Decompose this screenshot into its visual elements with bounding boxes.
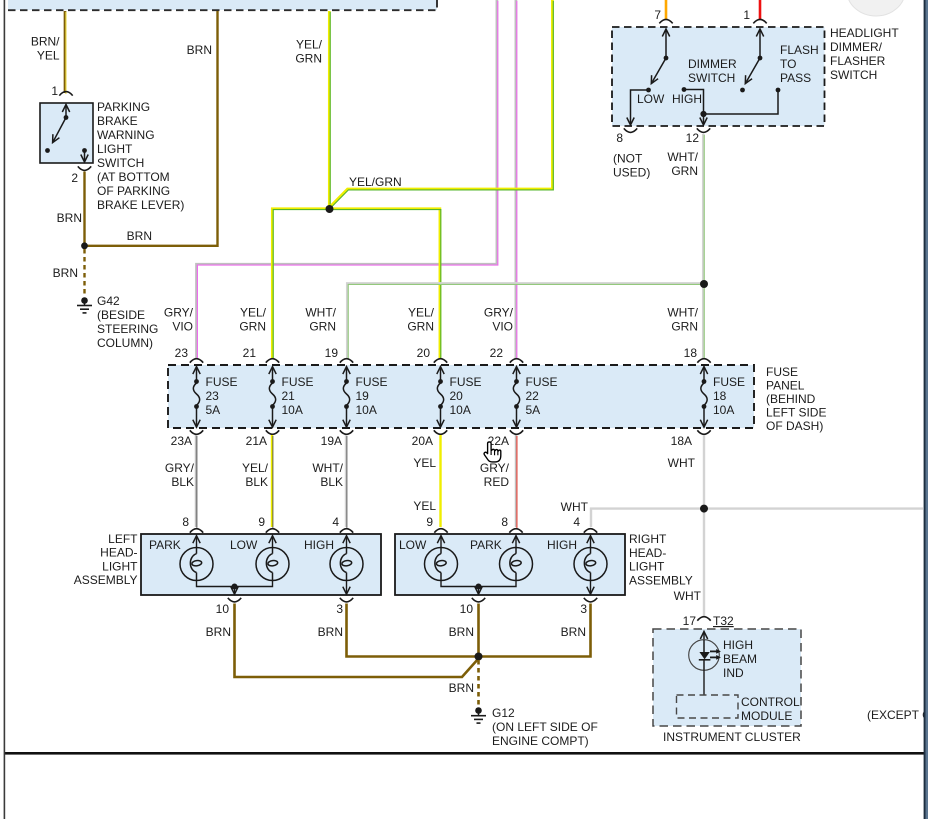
- svg-text:STEERING: STEERING: [97, 322, 158, 336]
- svg-text:(AT BOTTOM: (AT BOTTOM: [97, 170, 170, 184]
- svg-text:WHT/: WHT/: [667, 150, 698, 164]
- svg-text:BRN: BRN: [53, 266, 78, 280]
- svg-text:(BEHIND: (BEHIND: [766, 392, 816, 406]
- svg-text:1: 1: [51, 84, 58, 98]
- junction dot BRN ground net: [475, 653, 483, 661]
- svg-text:FLASH: FLASH: [780, 43, 819, 57]
- fuse F19 10A: [340, 359, 388, 435]
- svg-text:GRN: GRN: [671, 164, 698, 178]
- svg-text:YEL: YEL: [413, 499, 436, 513]
- wire GRY/RED fuse 22A to right headlight pin 8: [515, 435, 517, 527]
- fuse F20 10A: [434, 359, 482, 435]
- svg-text:BLK: BLK: [320, 475, 343, 489]
- parking brake warning light switch S1: [40, 84, 93, 185]
- junction dot A YEL/GRN: [326, 205, 334, 213]
- svg-text:HIGH: HIGH: [723, 638, 753, 652]
- pin 10 connector: [472, 598, 485, 602]
- svg-text:8: 8: [616, 131, 623, 145]
- svg-text:20: 20: [450, 389, 464, 403]
- svg-text:HEAD-: HEAD-: [629, 546, 666, 560]
- svg-text:FLASHER: FLASHER: [830, 54, 886, 68]
- svg-text:23: 23: [206, 389, 220, 403]
- wire WHT/GRN junction B left to fuse 19: [347, 284, 704, 359]
- headlight dimmer/flasher switch S2: [612, 19, 825, 126]
- junction dot WHT: [700, 505, 708, 513]
- svg-text:12: 12: [686, 131, 700, 145]
- svg-text:(NOT: (NOT: [613, 152, 643, 166]
- mouse cursor hand pointer: [484, 442, 501, 462]
- diagram bottom separator line: [4, 752, 924, 755]
- wire LED to control module: [703, 670, 705, 695]
- instrument cluster box: [653, 629, 801, 726]
- wire GRY/BLK fuse 23A to left headlight pin 8: [195, 435, 197, 527]
- svg-text:INSTRUMENT CLUSTER: INSTRUMENT CLUSTER: [663, 730, 801, 744]
- park bulb left: [196, 536, 198, 548]
- svg-text:GRN: GRN: [309, 320, 336, 334]
- svg-text:GRY/: GRY/: [480, 461, 510, 475]
- pin 2 connector: [78, 166, 91, 170]
- wire YEL fuse 20A to right headlight pin 9: [439, 435, 441, 527]
- svg-text:BRN: BRN: [318, 625, 343, 639]
- svg-text:T32: T32: [713, 614, 734, 628]
- svg-text:(ON LEFT SIDE OF: (ON LEFT SIDE OF: [492, 720, 598, 734]
- svg-text:BRN: BRN: [561, 625, 586, 639]
- viewport left border: [4, 0, 6, 819]
- high to pin 3: [590, 581, 592, 594]
- svg-text:19: 19: [356, 389, 370, 403]
- pin 10 connector: [228, 598, 241, 602]
- wire BRN dashed to ground G42: [83, 249, 85, 296]
- svg-text:10A: 10A: [356, 403, 377, 417]
- svg-text:LOW: LOW: [637, 92, 665, 106]
- svg-text:WHT: WHT: [561, 500, 589, 514]
- svg-text:YEL/: YEL/: [296, 38, 323, 52]
- wire WHT/GRN dimmer pin 12 down to junction B: [702, 134, 705, 284]
- svg-text:YEL: YEL: [413, 456, 436, 470]
- fuse F23 5A: [190, 359, 238, 435]
- svg-text:19A: 19A: [321, 434, 342, 448]
- wire BRN from top box down and left to junction: [86, 11, 218, 246]
- low+park common to pin 10: [441, 581, 516, 587]
- fuse F18 10A: [697, 359, 745, 435]
- svg-text:LOW: LOW: [399, 538, 427, 552]
- svg-text:G42: G42: [97, 294, 120, 308]
- wire YEL/GRN branch to fuse 20: [329, 209, 440, 358]
- svg-text:22: 22: [526, 389, 540, 403]
- svg-text:YEL/: YEL/: [408, 306, 435, 320]
- svg-text:22: 22: [490, 346, 504, 360]
- svg-text:G12: G12: [492, 706, 515, 720]
- wire YEL/BLK fuse 21A to left headlight pin 9: [271, 435, 273, 527]
- svg-text:YEL/: YEL/: [242, 461, 269, 475]
- svg-text:FUSE: FUSE: [206, 375, 238, 389]
- svg-text:BLK: BLK: [171, 475, 194, 489]
- svg-text:CONTROL: CONTROL: [741, 695, 800, 709]
- svg-text:BRN: BRN: [449, 681, 474, 695]
- ground G42: [77, 297, 92, 313]
- svg-text:GRN: GRN: [407, 320, 434, 334]
- dimmer switch contact art: [665, 29, 667, 58]
- pin 8 connector: [509, 529, 522, 533]
- svg-text:BRN: BRN: [57, 211, 82, 225]
- svg-text:GRN: GRN: [671, 320, 698, 334]
- svg-text:5A: 5A: [526, 403, 541, 417]
- switch contact art: [65, 105, 67, 118]
- pin 12 connector: [697, 128, 710, 132]
- svg-text:10A: 10A: [450, 403, 471, 417]
- wire BRN dashed to ground G12: [477, 660, 480, 706]
- fuse F22 5A: [510, 359, 558, 435]
- svg-text:(BESIDE: (BESIDE: [97, 308, 145, 322]
- svg-text:GRY/: GRY/: [164, 306, 194, 320]
- wire YEL/GRN from top box to junction A: [328, 11, 331, 207]
- svg-text:ENGINE COMPT): ENGINE COMPT): [492, 734, 589, 748]
- svg-text:SWITCH: SWITCH: [688, 71, 735, 85]
- svg-text:2: 2: [71, 171, 78, 185]
- svg-text:1: 1: [743, 8, 750, 22]
- pin 8 connector: [190, 529, 203, 533]
- svg-text:BLK: BLK: [245, 475, 268, 489]
- svg-text:YEL/GRN: YEL/GRN: [349, 175, 402, 189]
- svg-text:10A: 10A: [713, 403, 734, 417]
- svg-text:COLUMN): COLUMN): [97, 336, 153, 350]
- wire BRN/YEL from top box to parking brake switch pin 1: [64, 11, 67, 93]
- svg-text:WHT/: WHT/: [312, 461, 343, 475]
- control module box: [677, 695, 739, 718]
- high to pin 3: [346, 581, 348, 594]
- wire WHT branch to right headlight pin 4: [591, 509, 704, 527]
- svg-text:DIMMER: DIMMER: [688, 57, 737, 71]
- svg-text:WHT: WHT: [674, 589, 702, 603]
- svg-text:LEFT SIDE: LEFT SIDE: [766, 406, 826, 420]
- svg-text:(EXCEPT CO: (EXCEPT CO: [867, 708, 928, 722]
- svg-text:10: 10: [216, 602, 230, 616]
- svg-text:23: 23: [175, 346, 189, 360]
- pin 4 connector: [584, 529, 597, 533]
- svg-text:SWITCH: SWITCH: [97, 156, 144, 170]
- low bulb left: [272, 536, 274, 548]
- svg-text:PARK: PARK: [149, 538, 181, 552]
- svg-text:10: 10: [460, 602, 474, 616]
- svg-text:FUSE: FUSE: [526, 375, 558, 389]
- svg-text:BEAM: BEAM: [723, 652, 757, 666]
- pin 17 connector: [697, 617, 710, 621]
- wire WHT/BLK fuse 19A to left headlight pin 4: [345, 435, 347, 527]
- svg-text:8: 8: [182, 515, 189, 529]
- svg-text:BRN: BRN: [187, 43, 212, 57]
- svg-text:3: 3: [580, 602, 587, 616]
- svg-text:RIGHT: RIGHT: [629, 532, 667, 546]
- svg-text:OF DASH): OF DASH): [766, 419, 823, 433]
- wire WHT/GRN junction B to fuse 18: [702, 284, 705, 358]
- wire GRY/VIO from top to fuse 22: [515, 0, 518, 358]
- svg-text:ASSEMBLY: ASSEMBLY: [74, 573, 138, 587]
- svg-text:IND: IND: [723, 666, 744, 680]
- svg-text:PASS: PASS: [780, 71, 811, 85]
- svg-text:YEL: YEL: [37, 49, 60, 63]
- wire WHT fuse 18A down to instrument cluster pin 17: [703, 435, 705, 616]
- svg-text:OF PARKING: OF PARKING: [97, 184, 170, 198]
- svg-text:18: 18: [713, 389, 727, 403]
- svg-text:LIGHT: LIGHT: [629, 560, 665, 574]
- park+low common to pin 10: [197, 581, 273, 587]
- svg-text:GRY/: GRY/: [484, 306, 514, 320]
- pin 3 connector: [340, 598, 353, 602]
- svg-text:21: 21: [243, 346, 257, 360]
- high beam indicator LED: [689, 632, 721, 671]
- svg-text:8: 8: [501, 515, 508, 529]
- park bulb right: [515, 536, 517, 548]
- pin 3 connector: [584, 598, 597, 602]
- pin 1 connector: [753, 19, 766, 23]
- svg-text:VIO: VIO: [172, 320, 193, 334]
- svg-text:BRAKE LEVER): BRAKE LEVER): [97, 198, 184, 212]
- junction dot pin 12 net: [700, 111, 706, 117]
- svg-text:HIGH: HIGH: [547, 538, 577, 552]
- wire WHT continuing to right edge: [704, 507, 923, 509]
- svg-text:WHT: WHT: [668, 456, 696, 470]
- low bulb right: [440, 536, 442, 548]
- svg-text:PARKING: PARKING: [97, 100, 150, 114]
- svg-text:PARK: PARK: [470, 538, 502, 552]
- pin 7 connector: [659, 19, 672, 23]
- svg-text:LEFT: LEFT: [108, 532, 138, 546]
- wire BRN left pin 10 to ground junction: [235, 604, 479, 678]
- svg-text:4: 4: [332, 515, 339, 529]
- svg-text:3: 3: [336, 602, 343, 616]
- svg-text:HEAD-: HEAD-: [100, 546, 137, 560]
- svg-text:DIMMER/: DIMMER/: [830, 40, 883, 54]
- fuse F21 10A: [266, 359, 314, 435]
- svg-text:GRN: GRN: [295, 52, 322, 66]
- svg-text:BRN: BRN: [127, 229, 152, 243]
- svg-text:ASSEMBLY: ASSEMBLY: [629, 573, 693, 587]
- pin 8 connector (not used): [624, 128, 637, 132]
- svg-text:21: 21: [282, 389, 296, 403]
- pin 9 connector: [266, 529, 279, 533]
- svg-text:9: 9: [258, 515, 265, 529]
- svg-text:7: 7: [654, 8, 661, 22]
- junction dot BRN: [81, 242, 88, 249]
- viewport right panel edge: [924, 0, 926, 819]
- right headlight assembly box: [395, 534, 625, 595]
- wire YEL/GRN branch to fuse 21: [272, 209, 330, 358]
- svg-text:19: 19: [325, 346, 339, 360]
- svg-text:WARNING: WARNING: [97, 128, 155, 142]
- svg-text:WHT/: WHT/: [305, 306, 336, 320]
- svg-text:USED): USED): [613, 166, 650, 180]
- svg-text:LOW: LOW: [230, 538, 258, 552]
- svg-text:BRN/: BRN/: [31, 35, 60, 49]
- svg-text:FUSE: FUSE: [450, 375, 482, 389]
- pin 9 connector: [434, 529, 447, 533]
- top connector box (cut off at top): [8, 0, 437, 10]
- svg-text:FUSE: FUSE: [713, 375, 745, 389]
- svg-text:GRN: GRN: [239, 320, 266, 334]
- high bulb right: [590, 536, 592, 548]
- wire RED to dimmer switch pin 1: [759, 0, 762, 19]
- decor top-right circle blob: [847, 0, 905, 16]
- svg-text:LIGHT: LIGHT: [102, 559, 138, 573]
- svg-text:FUSE: FUSE: [766, 365, 798, 379]
- svg-text:FUSE: FUSE: [356, 375, 388, 389]
- ground G12: [471, 707, 486, 723]
- svg-text:RED: RED: [484, 475, 510, 489]
- svg-text:5A: 5A: [206, 403, 221, 417]
- left headlight assembly box: [141, 534, 381, 595]
- high contact to pin 12: [682, 87, 687, 92]
- wire BRN right pin 10 to ground junction: [477, 604, 480, 657]
- svg-text:LIGHT: LIGHT: [97, 142, 133, 156]
- svg-text:WHT/: WHT/: [667, 306, 698, 320]
- svg-text:20A: 20A: [412, 434, 433, 448]
- svg-text:18: 18: [684, 346, 698, 360]
- svg-text:20: 20: [417, 346, 431, 360]
- svg-text:17: 17: [683, 614, 697, 628]
- svg-text:VIO: VIO: [492, 320, 513, 334]
- svg-text:GRY/: GRY/: [165, 461, 195, 475]
- svg-text:HEADLIGHT: HEADLIGHT: [830, 26, 899, 40]
- junction dot B WHT/GRN: [700, 280, 708, 288]
- wire GRY/VIO from top to fuse 23: [197, 0, 497, 358]
- svg-text:SWITCH: SWITCH: [830, 68, 877, 82]
- svg-text:4: 4: [573, 515, 580, 529]
- svg-text:TO: TO: [780, 57, 796, 71]
- svg-text:HIGH: HIGH: [304, 538, 334, 552]
- svg-text:23A: 23A: [171, 434, 192, 448]
- wire ORG to dimmer switch pin 7: [665, 0, 668, 19]
- wire BRN left pin 3 to ground junction: [347, 604, 476, 657]
- svg-text:10A: 10A: [282, 403, 303, 417]
- svg-text:FUSE: FUSE: [282, 375, 314, 389]
- pin 4 connector: [340, 529, 353, 533]
- svg-text:BRAKE: BRAKE: [97, 114, 138, 128]
- svg-text:9: 9: [426, 515, 433, 529]
- flash-to-pass contact art: [759, 29, 761, 58]
- wire BRN right pin 3 to ground junction: [482, 604, 591, 657]
- wire BRN parking switch pin2 to junction: [83, 172, 85, 247]
- svg-text:MODULE: MODULE: [741, 709, 792, 723]
- svg-text:HIGH: HIGH: [672, 92, 702, 106]
- high bulb left: [346, 536, 348, 548]
- svg-text:21A: 21A: [246, 434, 267, 448]
- fuse panel box: [168, 365, 754, 428]
- wire YEL/GRN trunk from top right: [329, 0, 552, 208]
- svg-text:BRN: BRN: [206, 625, 231, 639]
- svg-text:YEL/: YEL/: [240, 306, 267, 320]
- svg-text:18A: 18A: [671, 434, 692, 448]
- svg-text:BRN: BRN: [449, 625, 474, 639]
- svg-text:PANEL: PANEL: [766, 379, 805, 393]
